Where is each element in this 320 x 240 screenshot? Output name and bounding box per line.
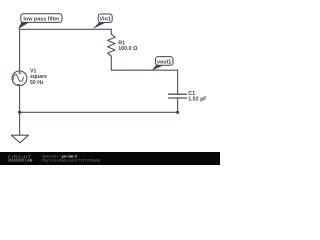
wire top horizontal [20, 28, 112, 30]
wire bottom rail [20, 111, 178, 113]
wire resistor bottom lead [110, 56, 112, 70]
junction dot left [18, 111, 21, 114]
voltage source V1 circle [12, 71, 27, 86]
label R1 value [118, 41, 138, 53]
svg-text:1.02 µF: 1.02 µF [188, 97, 207, 103]
CircuitLab logo [8, 155, 33, 163]
junction dot right [176, 111, 179, 114]
svg-text:100.0 Ω: 100.0 Ω [118, 46, 138, 52]
V1 minus sign [17, 84, 20, 86]
ground symbol [11, 135, 28, 143]
svg-text:Vin1: Vin1 [100, 17, 111, 23]
svg-text:low pass filter: low pass filter [23, 17, 60, 23]
svg-text:http://circuitlab.com/c/7377cf: http://circuitlab.com/c/7377cf99a0q [42, 158, 101, 162]
flag low pass filter [18, 14, 62, 29]
V1 plus sign [19, 72, 22, 75]
label C1 value [188, 91, 207, 103]
svg-text:LAB: LAB [25, 158, 33, 162]
svg-text:50 Hz: 50 Hz [30, 80, 44, 86]
flag vout1 [152, 57, 173, 71]
flag Vin1 [93, 14, 112, 29]
watermark bar [0, 152, 220, 165]
wire capacitor top lead [177, 70, 179, 94]
wire left vertical upper [19, 29, 21, 71]
wire resistor top lead [110, 29, 112, 34]
label V1 value [30, 68, 47, 85]
resistor R1 zigzag [108, 34, 116, 56]
wire left vertical lower [19, 86, 21, 135]
wire capacitor bottom lead [177, 98, 179, 112]
svg-text:vout1: vout1 [157, 60, 171, 66]
wire mid horizontal [111, 69, 177, 71]
V1 sine glyph [13, 74, 24, 81]
capacitor C1 plates [169, 94, 187, 98]
